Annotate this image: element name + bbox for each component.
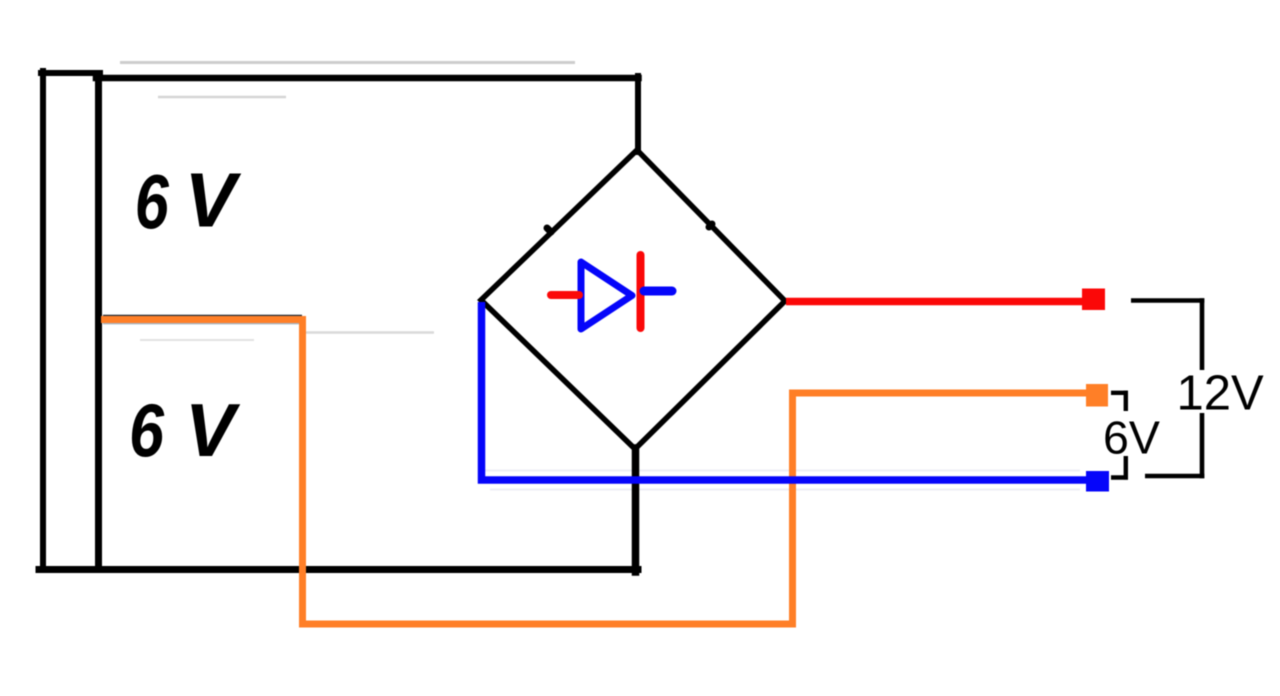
diode D1 triangle (blue) [581,262,632,329]
svg-text:6: 6 [129,389,165,473]
diode D1 cathode bar (red) [637,255,645,328]
nub on upper-right diamond edge [709,224,712,227]
svg-text:6: 6 [135,160,170,246]
diode D1 cathode lead (blue) [644,287,672,296]
diode D1 anode lead (red) [551,291,579,299]
terminal: red +12V [1082,289,1105,311]
transformer T1 winding bar [95,74,102,567]
wire: drop into bridge top [635,76,641,152]
terminal: blue common [1086,471,1109,492]
wire: red +12V output [786,298,1082,306]
ghost dark edge above center-tap start [103,315,302,317]
svg-text:V: V [185,158,242,244]
wire: bottom secondary [39,566,638,573]
bracket: 6V span [1111,391,1128,480]
ghost artifact lines (erased strokes) [120,63,1080,490]
wire: top secondary to bridge [96,75,639,82]
transformer T1 left bar [40,71,46,570]
terminal: orange 6V tap [1086,384,1108,407]
nub on upper-left diamond edge [547,228,551,232]
svg-text:12V: 12V [1177,367,1265,421]
transformer T1 left bar top cap [41,70,100,76]
wire: bridge bottom riser [632,448,640,572]
svg-text:6V: 6V [1103,412,1160,464]
bridge rectifier diamond [481,150,785,449]
bracket: 12V span [1131,298,1204,478]
svg-text:V: V [185,388,241,472]
wire: blue common (bridge left vertex to terminal) [482,302,1087,480]
ghost light edge below center-tap start [103,322,300,324]
wire: orange center-tap (from winding junction around bottom to terminal) [101,320,1086,625]
